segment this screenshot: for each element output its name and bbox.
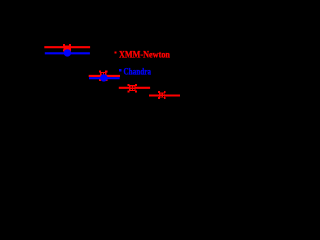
marker: XMM-Newton star point 2 [99,70,108,80]
error bar: XMM-Newton point 1 (red horizontal bar) [44,46,90,48]
svg-text:XMM-Newton: XMM-Newton [119,49,171,60]
error bar: XMM-Newton point 4 (red horizontal bar) [149,94,180,96]
legend marker: XMM-Newton (small red square) [114,51,116,53]
error bar: Chandra point 2 (blue horizontal bar) [89,77,120,79]
error bar: Chandra point 1 (blue horizontal bar) [45,52,90,54]
svg-text:Chandra: Chandra [124,67,152,78]
marker: XMM-Newton star point 4 [158,91,166,99]
marker: Chandra filled circle point 1 [64,49,71,56]
error bar: XMM-Newton point 2 (red horizontal bar, overlaps Chandra point 2) [89,75,120,77]
marker: Chandra filled circle point 2 [100,74,107,81]
marker: XMM-Newton star point 1 (nearly solid at this scale) [63,44,71,52]
marker: XMM-Newton star point 3 [127,84,136,92]
legend marker: Chandra (small blue square) [119,69,122,72]
error bar: XMM-Newton point 3 (red horizontal bar) [119,87,150,89]
